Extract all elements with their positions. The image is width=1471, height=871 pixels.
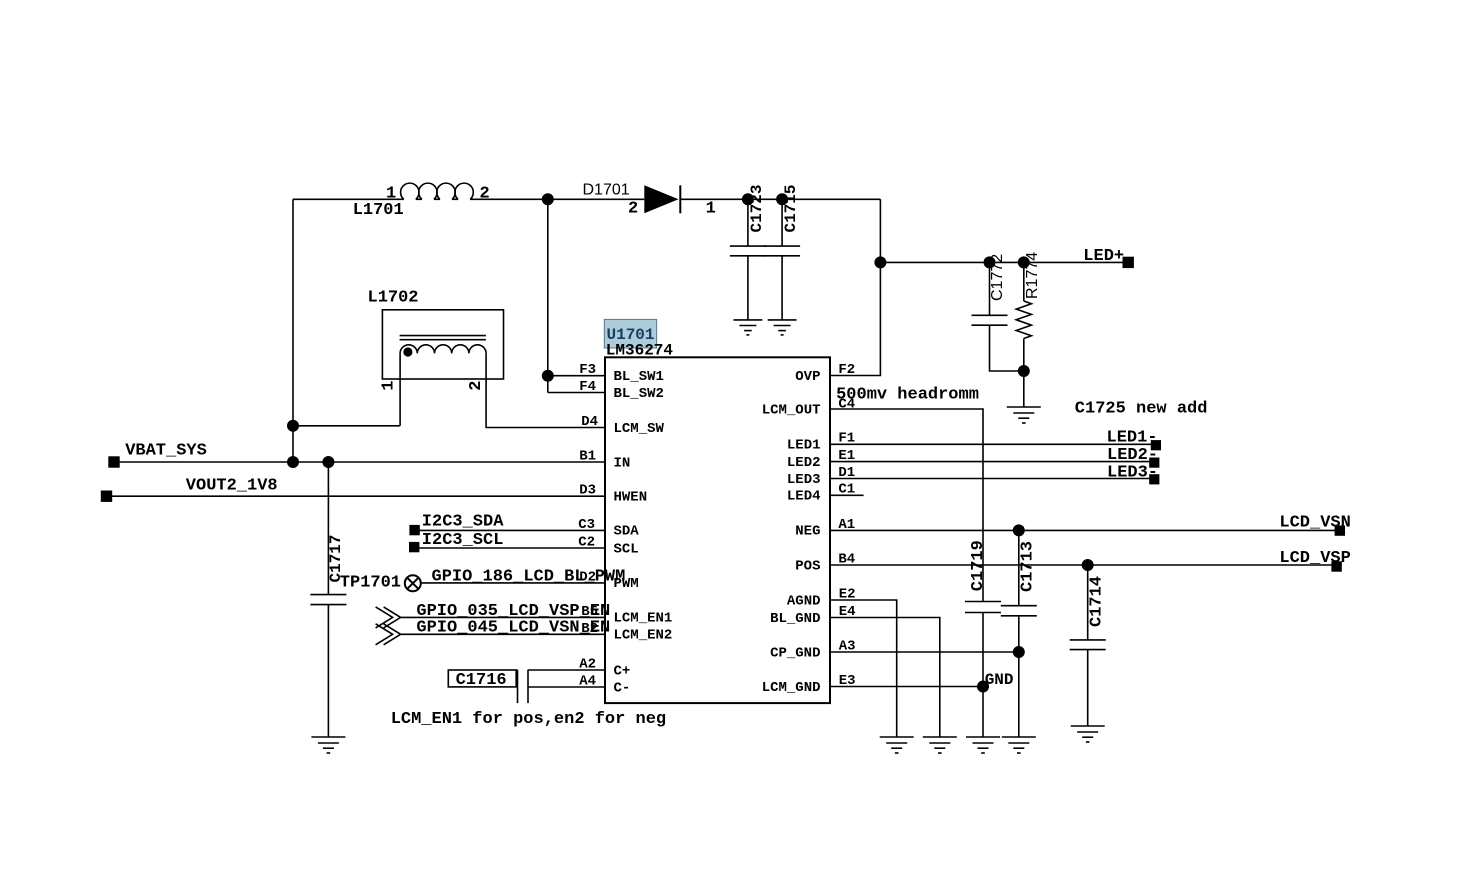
svg-text:D2: D2 <box>579 569 596 585</box>
node: junction dot R1774/C1772 <box>1018 365 1030 377</box>
L1702 pin1 wire <box>399 353 401 425</box>
svg-text:F2: F2 <box>838 362 855 378</box>
svg-text:LED2: LED2 <box>787 455 821 471</box>
svg-text:LM36274: LM36274 <box>606 341 674 359</box>
svg-text:POS: POS <box>795 558 820 574</box>
node: junction dot at C1723 <box>742 193 754 205</box>
node: junction dot F3 <box>542 370 554 382</box>
wire OVP vertical <box>830 199 880 375</box>
svg-text:L1702: L1702 <box>368 289 419 308</box>
svg-text:B1: B1 <box>579 449 596 465</box>
svg-text:1: 1 <box>380 380 399 390</box>
wire C1 LED4 stub <box>830 494 864 496</box>
diode D1701 <box>644 185 678 213</box>
node: junction dot at R1774 <box>1018 256 1030 268</box>
wire F4 <box>548 392 605 394</box>
U1701 refdes highlight <box>604 319 656 348</box>
node: junction dot C1717 branch <box>322 456 334 468</box>
svg-text:NEG: NEG <box>795 524 820 540</box>
svg-text:500mv headromm: 500mv headromm <box>836 385 979 404</box>
wire to L1702 pin1 <box>293 425 400 427</box>
svg-text:LCM_EN2: LCM_EN2 <box>614 628 673 644</box>
terminal square LCD_VSN <box>1335 525 1345 535</box>
terminal square LED1- <box>1151 440 1161 450</box>
op-amp U1701 IC body <box>605 357 830 703</box>
svg-text:D3: D3 <box>579 483 596 499</box>
node: junction dot L1702 branch <box>287 420 299 432</box>
svg-text:C1725 new add: C1725 new add <box>1075 400 1208 419</box>
svg-text:A2: A2 <box>579 657 596 673</box>
svg-text:C3: C3 <box>578 517 595 533</box>
terminal square LCD_VSP <box>1331 561 1341 571</box>
svg-text:A4: A4 <box>579 674 596 690</box>
svg-text:C1716: C1716 <box>456 671 507 690</box>
svg-text:BL_SW1: BL_SW1 <box>614 369 664 385</box>
terminal square I2C3_SDA <box>409 525 419 535</box>
svg-text:2: 2 <box>467 380 486 390</box>
terminal square LED+ <box>1123 257 1134 268</box>
svg-text:B5: B5 <box>581 604 598 620</box>
svg-text:B2: B2 <box>581 621 598 637</box>
wire D1 LED3- <box>830 478 1151 480</box>
svg-text:BL_GND: BL_GND <box>770 611 820 627</box>
resistor R1774 <box>1016 262 1031 407</box>
wire A1 NEG to LCD_VSN <box>830 529 1340 531</box>
L1702 phase dot <box>403 347 412 356</box>
svg-text:CP_GND: CP_GND <box>770 645 820 661</box>
svg-text:LCM_EN1 for pos,en2 for neg: LCM_EN1 for pos,en2 for neg <box>391 710 666 729</box>
svg-text:C+: C+ <box>614 663 631 679</box>
svg-text:OVP: OVP <box>795 369 820 385</box>
capacitor C1715 <box>764 199 800 320</box>
svg-text:C-: C- <box>614 680 631 696</box>
wire E1 LED2- <box>830 461 1151 463</box>
svg-text:C1723: C1723 <box>748 184 766 232</box>
svg-text:D4: D4 <box>581 414 598 430</box>
svg-text:F3: F3 <box>579 362 596 378</box>
terminal square LED2- <box>1149 458 1159 468</box>
svg-text:LED4: LED4 <box>787 489 821 505</box>
svg-text:LED+: LED+ <box>1083 247 1124 266</box>
wire LED+ rail <box>880 261 1128 263</box>
ground for C1715 <box>768 320 797 335</box>
svg-text:SCL: SCL <box>614 541 639 557</box>
L1702 pin2 wire <box>486 353 605 427</box>
transformer L1702 <box>382 310 503 379</box>
wire GPIO_045 to LCM_EN2 <box>401 633 605 635</box>
svg-text:C1772: C1772 <box>989 254 1006 301</box>
svg-text:C1715: C1715 <box>782 184 800 232</box>
svg-text:C1714: C1714 <box>1088 576 1107 627</box>
ground for C1723 <box>734 320 763 335</box>
off-page chevron GPIO_045 <box>376 624 401 645</box>
svg-text:2: 2 <box>480 185 490 204</box>
node: junction dot at C1715 <box>776 193 788 205</box>
svg-text:R1774: R1774 <box>1024 252 1041 299</box>
terminal square VBAT_SYS <box>108 456 119 467</box>
svg-text:BL_SW2: BL_SW2 <box>614 386 664 402</box>
svg-text:C2: C2 <box>578 534 595 550</box>
svg-text:AGND: AGND <box>787 593 821 609</box>
inductor L1701 <box>401 183 474 199</box>
ground for R1774 <box>1007 407 1041 423</box>
svg-text:LED3: LED3 <box>787 472 821 488</box>
capacitor C1714 <box>1070 565 1106 726</box>
svg-text:TP1701: TP1701 <box>340 573 401 592</box>
wire TP1701 to PWM <box>421 582 605 584</box>
svg-text:LCM_OUT: LCM_OUT <box>762 402 821 418</box>
capacitor C1717 <box>310 462 346 737</box>
wire F3 <box>548 375 605 377</box>
terminal square LED3- <box>1149 474 1159 484</box>
svg-text:L1701: L1701 <box>353 201 404 220</box>
capacitor C1723 <box>730 199 766 320</box>
node: junction dot at C1772 <box>984 256 996 268</box>
wire I2C3_SCL to SCL <box>414 547 605 549</box>
svg-text:F4: F4 <box>579 379 596 395</box>
terminal square VOUT2_1V8 <box>101 491 112 502</box>
capacitor C1719 <box>965 602 1001 738</box>
ground for BL_GND <box>923 737 957 753</box>
wire A3 CP_GND <box>830 651 1019 653</box>
ground for C1717 <box>311 737 345 753</box>
svg-text:1: 1 <box>706 200 716 219</box>
wire diode to OVP corner <box>680 198 880 200</box>
node: junction dot CP_GND <box>1013 646 1025 658</box>
wire E2 AGND to ground <box>830 600 897 737</box>
wire left rail vertical <box>292 199 294 462</box>
svg-text:LED1: LED1 <box>787 438 821 454</box>
node: junction dot C1713 <box>1013 524 1025 536</box>
wire B4 POS to LCD_VSP <box>830 564 1337 566</box>
off-page chevron GPIO_035 <box>376 607 401 628</box>
node: junction dot C1714 <box>1082 559 1094 571</box>
svg-text:PWM: PWM <box>614 576 639 592</box>
svg-text:VOUT2_1V8: VOUT2_1V8 <box>186 477 278 496</box>
svg-text:VBAT_SYS: VBAT_SYS <box>125 441 207 460</box>
ground for C1714 <box>1071 726 1105 742</box>
node: junction dot LED+ branch <box>874 256 886 268</box>
svg-text:SDA: SDA <box>614 524 640 540</box>
svg-text:C1713: C1713 <box>1019 541 1038 592</box>
wire VBAT_SYS to IN <box>114 461 605 463</box>
node: junction dot LCM_GND <box>977 681 989 693</box>
svg-text:GND: GND <box>985 671 1014 689</box>
svg-text:2: 2 <box>628 200 638 219</box>
ground for AGND <box>880 737 914 753</box>
wire SW node vertical to F3/F4 <box>547 199 549 392</box>
ground for C1713 <box>1002 737 1036 753</box>
wire top rail from left corner to L1701 <box>293 198 401 200</box>
wire C4 LCM_OUT <box>830 409 983 602</box>
wire VOUT2_1V8 to HWEN <box>107 495 606 497</box>
capacitor C1713 <box>1001 530 1037 737</box>
wire from L1701 to diode <box>474 198 644 200</box>
svg-text:I2C3_SDA: I2C3_SDA <box>422 513 504 532</box>
node: junction dot VBAT <box>287 456 299 468</box>
wire GPIO_035 to LCM_EN1 <box>401 616 605 618</box>
svg-text:HWEN: HWEN <box>614 490 648 506</box>
svg-text:C1719: C1719 <box>969 540 988 591</box>
svg-text:LED1-: LED1- <box>1107 429 1158 448</box>
svg-text:D1701: D1701 <box>583 182 630 199</box>
svg-text:LCM_SW: LCM_SW <box>614 421 665 437</box>
svg-text:LCM_EN1: LCM_EN1 <box>614 611 673 627</box>
capacitor C1716 <box>448 670 605 704</box>
svg-text:IN: IN <box>614 455 631 471</box>
terminal square I2C3_SCL <box>409 542 419 552</box>
wire I2C3_SDA to SDA <box>415 529 605 531</box>
ground for C1719 <box>966 737 1000 753</box>
svg-text:LCM_GND: LCM_GND <box>762 680 821 696</box>
node: junction dot SW node <box>542 193 554 205</box>
wire F1 LED1- <box>830 443 1152 445</box>
wire E3 LCM_GND <box>830 686 983 688</box>
capacitor C1772 <box>972 262 1024 371</box>
wire E4 BL_GND to ground <box>830 618 940 738</box>
